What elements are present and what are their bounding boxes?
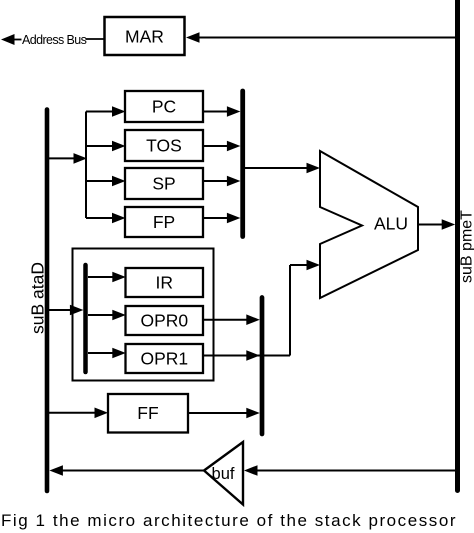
arrow into inner bus — [70, 305, 84, 316]
wire OPR0 output — [203, 319, 247, 321]
wire FF output — [188, 412, 247, 414]
wire FP output — [203, 217, 228, 219]
arrow into Data Bus — [49, 465, 63, 476]
arrow into ALU lower input — [307, 260, 321, 271]
svg-text:FP: FP — [153, 212, 175, 232]
arrow into buf — [244, 465, 258, 476]
buf triangle — [204, 442, 243, 505]
wire to PC — [86, 111, 113, 113]
FP box — [125, 207, 203, 237]
OPR0 box — [126, 306, 204, 335]
wire to TOS — [86, 145, 113, 147]
wire TOS output — [203, 145, 228, 147]
arrow SP to bus — [227, 176, 241, 187]
wire register bus to ALU upper input — [245, 167, 308, 169]
wire Temp Bus to MAR — [197, 37, 458, 39]
arrow into distribution line — [74, 153, 88, 164]
svg-text:OPR1: OPR1 — [140, 349, 188, 369]
IR/OPR group box — [73, 249, 214, 381]
arrow into IR — [112, 272, 126, 283]
wire to ALU lower input — [290, 264, 308, 266]
wire SP output — [203, 180, 228, 182]
svg-text:MAR: MAR — [125, 27, 164, 47]
wire Data Bus to distribution line — [47, 157, 74, 159]
svg-text:PC: PC — [152, 97, 176, 117]
arrow into SP — [112, 176, 126, 187]
svg-text:Address Bus: Address Bus — [22, 33, 87, 47]
arrow into OPR1 — [112, 348, 126, 359]
wire OPR1 output — [203, 355, 290, 357]
wire OPR1 up to ALU lower input — [289, 265, 291, 356]
wire Temp Bus to buf — [256, 470, 455, 472]
svg-text:OPR0: OPR0 — [140, 311, 188, 331]
arrow into OPR0 — [112, 310, 126, 321]
arrow into TOS — [112, 141, 126, 152]
arrow PC to bus — [227, 106, 241, 117]
MAR box — [105, 17, 185, 55]
Data Bus (left thick vertical bus) — [45, 110, 50, 492]
wire buf to Data Bus — [62, 470, 204, 472]
arrow into MAR — [186, 32, 200, 43]
arrow into ALU upper input — [307, 163, 321, 174]
svg-text:suB ataD: suB ataD — [28, 262, 48, 334]
wire Data Bus to inner bus — [47, 309, 71, 311]
wire ALU output — [418, 224, 442, 226]
register output bus — [240, 91, 245, 237]
OPR1 box — [126, 344, 204, 373]
arrow FF to OPR bus — [246, 408, 259, 419]
Temp Bus (right thick vertical bus) — [455, 0, 460, 491]
OPR bus (thick vertical) — [260, 298, 265, 435]
register input distribution line — [85, 112, 87, 219]
SP box — [125, 168, 203, 199]
wire label-to-MAR — [86, 38, 105, 40]
arrow FP to bus — [227, 213, 241, 224]
Address Bus arrow (left-pointing) — [1, 34, 15, 45]
svg-text:ALU: ALU — [374, 214, 408, 234]
ALU shape — [320, 151, 418, 298]
TOS box — [125, 130, 203, 161]
svg-text:IR: IR — [156, 273, 174, 293]
svg-text:Fig 1 the micro architecture o: Fig 1 the micro architecture of the stac… — [1, 511, 457, 530]
arrow OPR0 to OPR bus — [246, 314, 259, 325]
wire PC output — [203, 111, 228, 113]
svg-text:buf: buf — [212, 465, 235, 483]
arrow TOS to bus — [227, 141, 241, 152]
FF box — [108, 394, 188, 433]
IR box — [126, 268, 204, 297]
svg-text:suB pmeT: suB pmeT — [459, 210, 474, 283]
arrow OPR1 to OPR bus — [246, 350, 259, 361]
wire arrow-to-label — [13, 39, 22, 41]
inner distribution bus — [83, 265, 88, 372]
wire Data Bus to FF — [47, 412, 96, 414]
PC box — [125, 91, 203, 122]
wire to IR — [88, 276, 113, 278]
arrow ALU to Temp Bus — [442, 219, 456, 230]
svg-text:SP: SP — [152, 174, 175, 194]
wire to FP — [86, 217, 113, 219]
svg-text:TOS: TOS — [146, 136, 182, 156]
arrow into FF — [95, 408, 109, 419]
wire to OPR1 — [88, 352, 113, 354]
arrow into PC — [112, 106, 126, 117]
wire to SP — [86, 180, 113, 182]
wire to OPR0 — [88, 314, 113, 316]
arrow into FP — [112, 213, 126, 224]
svg-text:FF: FF — [137, 403, 158, 423]
